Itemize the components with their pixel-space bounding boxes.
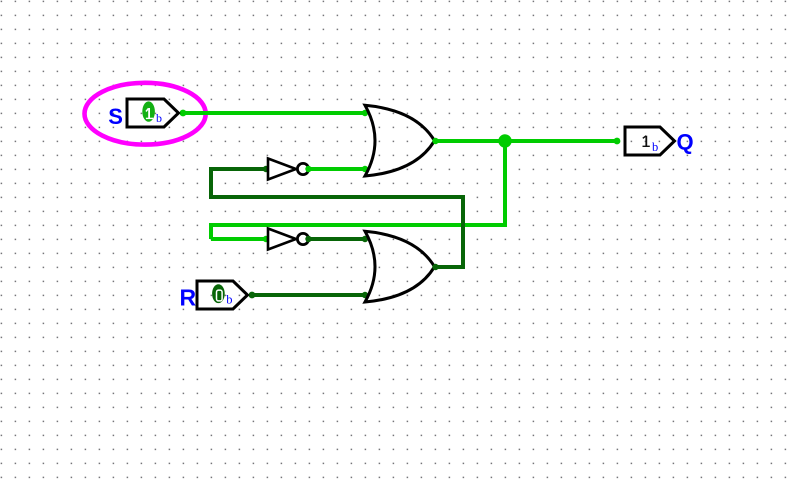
wire OR1 output to output Q (high) [434, 139, 617, 143]
input R value digit 0 [217, 290, 223, 301]
wire R output to OR2 bottom input (low) [250, 293, 365, 297]
svg-text:b: b [226, 293, 232, 307]
highlight ellipse around input S [85, 83, 206, 145]
pin dot OR1 input A [362, 110, 368, 116]
wire feedback long horizontal (low) [209, 195, 465, 199]
pin dot inverter U3 input [263, 236, 269, 242]
pin dot OR2 output [432, 264, 438, 270]
wire left vertical (low) [209, 167, 213, 197]
wire inverter U3 output to OR2 input (low) [310, 237, 365, 241]
wire inverter U2 input horizontal (low) [209, 167, 267, 171]
output Q value digit 1 [643, 136, 650, 147]
or-gate U1 (upper) [365, 105, 435, 176]
inverter U3 (lower NOT gate) [268, 229, 309, 250]
pin dot OR2 input A [362, 236, 368, 242]
junction node dot [498, 134, 511, 147]
input R value oval [212, 284, 225, 303]
wire inverter U2 output to OR1 bottom input (high) [310, 167, 365, 171]
wire junction down (high) [503, 141, 507, 227]
pin dot OR1 input B [362, 166, 368, 172]
svg-text:S: S [108, 104, 123, 129]
svg-text:b: b [156, 111, 162, 125]
svg-text:b: b [652, 140, 658, 154]
wire right vertical feedback (low) [461, 195, 465, 269]
wire left vertical short (high) [209, 223, 213, 239]
pin dot OR1 output [432, 138, 438, 144]
input S value oval [142, 101, 155, 121]
svg-text:Q: Q [677, 130, 694, 155]
pin dot inverter U3 output [305, 236, 311, 242]
wire S output to OR1 top input (high) [180, 111, 365, 115]
pin dot R output [249, 292, 256, 299]
output Q box [625, 127, 675, 155]
pin dot S output [180, 110, 187, 117]
inverter U2 (upper NOT gate) [268, 159, 309, 180]
wire feedback horizontal mid (high) [209, 223, 507, 227]
or-gate U4 (lower) [365, 231, 435, 302]
pin dot inverter U2 input [263, 166, 269, 172]
svg-text:R: R [180, 285, 197, 311]
input S value digit 1 [146, 108, 153, 118]
input S box [127, 99, 179, 127]
pin dot inverter U2 output [305, 166, 311, 172]
pin dot OR2 input B [362, 292, 368, 298]
pin dot Q input [614, 138, 621, 145]
input R box [197, 281, 248, 309]
wire to inverter U3 input (high) [211, 237, 267, 241]
wire OR2 output stub (low) [434, 265, 465, 269]
